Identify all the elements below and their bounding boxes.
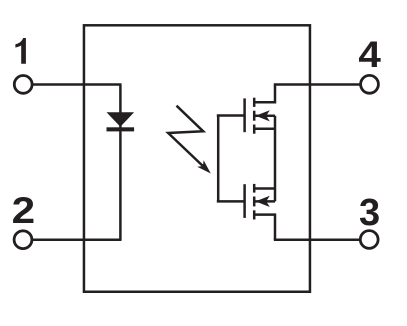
MOSFET Q2 gate bar (243, 184, 246, 218)
pin 1 label (15, 38, 26, 64)
MOSFET Q2 drain lead (254, 215, 275, 240)
MOSFET Q1 drain lead (254, 85, 275, 103)
MOSFET Q1 channel segments (253, 98, 256, 134)
light transfer arrow (168, 106, 211, 174)
wire pin 1 to LED anode (32, 83, 122, 86)
MOSFET Q1 gate lead (217, 114, 245, 117)
MOSFET Q2 source lead (254, 187, 275, 190)
pin 2 label (12, 190, 36, 231)
svg-text:4: 4 (358, 34, 381, 75)
wire LED branch vertical (119, 85, 122, 240)
package outline (84, 25, 310, 291)
pin 4 label (358, 34, 381, 75)
MOSFET Q2 gate lead (217, 200, 245, 203)
pin 3 terminal (360, 231, 378, 249)
pin 3 label (359, 192, 380, 234)
MOSFET Q1 gate bar (243, 98, 246, 132)
wire Q2 drain to pin 3 (274, 238, 361, 241)
svg-text:2: 2 (12, 190, 36, 231)
MOSFET Q2 channel segments (253, 184, 256, 220)
LED D1 (107, 112, 135, 131)
wire Q1 drain to pin 4 (274, 83, 361, 86)
pin 4 terminal (361, 75, 379, 93)
MOSFET Q1 source lead (254, 128, 275, 131)
wire pin 2 to LED cathode (32, 238, 122, 241)
gate bus wire (217, 116, 220, 202)
pin 1 terminal (14, 76, 32, 94)
svg-text:3: 3 (359, 192, 380, 234)
MOSFET Q2 body lead with arrow (254, 196, 275, 207)
pin 2 terminal (14, 231, 32, 249)
common source bus (274, 116, 277, 202)
MOSFET Q1 body lead with arrow (254, 110, 275, 121)
